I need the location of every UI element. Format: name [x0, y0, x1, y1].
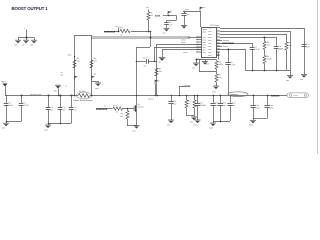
svg-text:xxxx: xxxx — [185, 9, 189, 11]
wire — [245, 49, 247, 70]
svg-text:xxx: xxx — [267, 45, 270, 47]
svg-text:10uF: 10uF — [8, 105, 13, 107]
wire comp horizontal — [137, 61, 146, 63]
branch C out3 — [220, 96, 222, 104]
svg-text:xxxxxx: xxxxxx — [138, 107, 144, 109]
svg-text:xxxx: xxxx — [194, 124, 198, 126]
svg-text:xxxxx: xxxxx — [181, 42, 186, 44]
wire — [154, 47, 156, 62]
U1 right pin stubs — [208, 26, 220, 57]
wire — [156, 45, 158, 62]
wire — [26, 38, 28, 41]
wire pin9 — [216, 52, 218, 54]
wire — [264, 50, 266, 56]
capacitor C m3 — [71, 96, 73, 108]
wire — [127, 119, 129, 126]
wire — [60, 110, 62, 124]
capacitor C m1 — [48, 96, 50, 108]
IC U1 boost converter body — [202, 28, 217, 58]
svg-text:68pF: 68pF — [278, 49, 283, 51]
svg-text:xxx: xxx — [94, 61, 97, 63]
wire pin2 to plain ground column — [220, 31, 290, 33]
junction — [48, 95, 50, 97]
resistor R right — [285, 42, 288, 50]
capacitor C2u2 — [226, 63, 231, 64]
svg-text:xxx: xxx — [159, 71, 162, 73]
junction — [48, 123, 50, 125]
svg-text:Cx xx: Cx xx — [143, 57, 148, 59]
junction — [197, 95, 199, 97]
junction — [150, 31, 152, 33]
svg-text:xxx: xxx — [150, 15, 153, 17]
junction — [155, 95, 157, 97]
wire — [184, 11, 186, 14]
net label oval on rail — [228, 92, 248, 97]
junction — [220, 121, 222, 123]
wire — [213, 105, 215, 121]
svg-text:xxxxx: xxxxx — [293, 95, 298, 97]
wire pin8 — [216, 49, 245, 51]
resistor R fb1 — [185, 100, 188, 108]
svg-text:xxxx: xxxx — [209, 127, 213, 129]
wire — [18, 37, 34, 39]
wire 68p branch — [276, 37, 278, 70]
wire — [228, 49, 230, 96]
capacitor C out2 — [210, 103, 215, 105]
wire — [48, 110, 50, 124]
ground — [249, 120, 256, 126]
ground — [194, 120, 201, 126]
svg-text:xxx: xxx — [173, 104, 176, 106]
svg-text:100k: 100k — [219, 64, 223, 66]
svg-text:xx: xx — [22, 45, 24, 47]
junction — [213, 95, 215, 97]
svg-text:xxxx: xxxx — [208, 37, 212, 39]
wire — [162, 50, 164, 58]
capacitor C m2 — [60, 96, 62, 108]
wire — [71, 110, 73, 124]
ground — [202, 62, 208, 65]
ground — [286, 76, 293, 82]
wire SW thick gray bus — [92, 36, 191, 39]
wire — [34, 38, 36, 41]
svg-text:xx: xx — [104, 106, 106, 108]
svg-text:xxxx: xxxx — [208, 40, 212, 42]
ground — [300, 75, 307, 81]
wire — [216, 82, 218, 86]
power flag VCC1 — [168, 11, 171, 15]
svg-text:xxx: xxx — [77, 61, 80, 63]
wire — [6, 122, 8, 124]
junction — [184, 11, 186, 13]
wire thin over bus end — [188, 37, 201, 39]
power flag on branch A — [75, 76, 78, 80]
svg-text:xxx: xxx — [157, 81, 160, 83]
net stub above rail — [179, 86, 181, 96]
svg-text:xxx: xxx — [30, 45, 33, 47]
ground — [30, 40, 37, 46]
capacitor C out1 — [195, 103, 200, 105]
wire — [286, 34, 288, 42]
capacitor C out5 — [250, 105, 255, 107]
wire — [98, 81, 100, 83]
capacitor C bypass2 — [181, 13, 186, 15]
capacitor C11 — [302, 44, 307, 46]
junction — [26, 37, 28, 39]
svg-text:xxxxx: xxxxx — [183, 52, 188, 54]
capacitor C in2 — [21, 96, 23, 104]
junction — [196, 59, 198, 61]
svg-text:xxx: xxx — [215, 105, 218, 107]
svg-text:xx: xx — [65, 86, 67, 88]
ground — [2, 123, 9, 129]
capacitor C bypass1 — [164, 22, 169, 24]
svg-text:xxxx: xxxx — [44, 129, 48, 131]
svg-text:xxxxxx: xxxxxx — [271, 95, 280, 98]
connector pill — [287, 93, 309, 98]
capacitor C comp series — [146, 59, 148, 64]
svg-text:xxx: xxx — [167, 124, 170, 126]
resistor R lower — [215, 74, 218, 82]
wire pin4 — [220, 37, 276, 39]
resistor R divB — [90, 60, 93, 68]
resistor R divA — [73, 60, 76, 68]
wire — [127, 109, 129, 111]
junction — [91, 95, 93, 97]
wire — [137, 47, 151, 49]
wire — [216, 69, 218, 74]
wire — [205, 60, 207, 62]
junction band — [150, 37, 152, 39]
current sense resistor oval — [76, 92, 91, 99]
svg-text:xxx: xxx — [223, 105, 226, 107]
junction — [60, 95, 62, 97]
wire pin6 — [216, 43, 252, 45]
junction — [220, 95, 222, 97]
svg-text:xxx: xxx — [207, 64, 210, 66]
wire — [127, 125, 137, 127]
svg-text:xxx: xxx — [219, 77, 222, 79]
wire pin1 to C right column — [220, 28, 304, 30]
wire — [176, 15, 178, 20]
branch C out-a — [171, 96, 173, 102]
svg-text:Rx x: Rx x — [113, 105, 117, 107]
resistor R comp — [155, 68, 158, 76]
ground — [192, 63, 199, 69]
wire — [213, 121, 230, 123]
svg-text:xxx: xxx — [163, 33, 166, 35]
svg-text:xxxx: xxxx — [203, 32, 207, 34]
wire — [286, 50, 288, 70]
ground — [14, 40, 21, 46]
wire gate — [96, 108, 132, 110]
svg-text:Rx x: Rx x — [120, 27, 124, 29]
svg-text:xxxxxxxxx: xxxxxxxxx — [222, 42, 235, 45]
svg-text:xxx xxxx xxxx: xxx xxxx xxxx — [30, 94, 42, 96]
svg-text:xxxxxxxx: xxxxxxxx — [104, 30, 116, 33]
svg-text:xx: xx — [204, 7, 206, 9]
wire — [220, 105, 222, 121]
svg-text:xx: xx — [170, 11, 172, 13]
svg-text:xxxx: xxxx — [212, 92, 216, 94]
wire — [196, 60, 198, 64]
svg-text:xxx: xxx — [158, 62, 161, 64]
wire — [253, 118, 267, 120]
net stub node A — [26, 30, 28, 38]
wire — [5, 87, 7, 96]
wire pin10 stub — [216, 55, 219, 57]
svg-text:U1 LTxxxx: U1 LTxxxx — [210, 25, 219, 27]
svg-text:xxxxxxxx: xxxxxxxx — [96, 108, 108, 111]
wire — [148, 20, 150, 31]
wire into IC top — [200, 11, 202, 27]
svg-text:xxxx: xxxx — [208, 46, 212, 48]
wire SW long vertical — [136, 47, 138, 126]
svg-text:xxxx: xxxx — [95, 88, 99, 90]
svg-text:xxx: xxx — [192, 67, 195, 69]
svg-text:xxxxxxxx: xxxxxxxx — [231, 94, 239, 96]
svg-text:xxxx: xxxx — [208, 27, 212, 29]
wire — [48, 124, 50, 126]
svg-text:4.7uF: 4.7uF — [254, 49, 260, 51]
wire pin3 — [220, 34, 287, 36]
capacitor C in1 — [6, 96, 8, 104]
ground — [134, 126, 140, 129]
svg-text:xxx: xxx — [61, 75, 64, 77]
resistor Rb — [263, 56, 266, 64]
wire — [18, 38, 20, 41]
svg-text:xxxx: xxxx — [249, 125, 253, 127]
junction — [194, 95, 196, 97]
junction — [136, 95, 138, 97]
U1 left pin stubs — [196, 35, 206, 54]
junction — [252, 70, 254, 72]
resistor R fb2 — [193, 100, 196, 108]
junction — [264, 70, 266, 72]
wire — [184, 16, 186, 26]
svg-text:4.7uF: 4.7uF — [23, 105, 29, 107]
resistor R pulldown — [126, 111, 129, 119]
svg-text:BOOST OUTPUT 1: BOOST OUTPUT 1 — [12, 6, 49, 11]
branch C out6 — [267, 96, 269, 106]
ground — [159, 57, 166, 61]
wire pin5 stub with label — [216, 40, 222, 42]
power flag VCC2 — [200, 7, 203, 11]
svg-text:xxxx: xxxx — [203, 52, 207, 54]
wire — [252, 43, 254, 70]
wire — [264, 64, 266, 71]
svg-text:xxx: xxx — [286, 80, 289, 82]
wire under IC — [196, 59, 216, 61]
sheet background — [0, 0, 320, 154]
pad PAD1 — [3, 84, 8, 87]
svg-text:xxxx: xxxx — [208, 34, 212, 36]
wire VIN horizontal — [163, 15, 176, 17]
capacitor C out4 — [227, 103, 232, 105]
wire — [156, 62, 158, 96]
wire — [150, 31, 152, 47]
resistor R snub horizontal — [120, 29, 132, 34]
svg-text:xxxx: xxxx — [208, 55, 212, 57]
junction — [228, 49, 230, 51]
svg-text:1.00k: 1.00k — [267, 59, 272, 61]
capacitor C out3 — [218, 103, 223, 105]
svg-text:xxx: xxx — [232, 105, 235, 107]
net stub SW — [118, 28, 120, 32]
svg-text:a: a — [24, 28, 25, 30]
resistor R upper — [216, 60, 218, 62]
wire — [267, 108, 269, 119]
wire — [213, 121, 215, 123]
svg-text:PAD 1: PAD 1 — [1, 80, 6, 83]
junction — [74, 95, 76, 97]
svg-text:xxx: xxx — [62, 110, 65, 112]
svg-text:xxxxx: xxxxx — [223, 46, 228, 48]
branch R fb pair — [186, 96, 188, 101]
wire — [194, 115, 196, 117]
wire — [230, 105, 232, 121]
svg-text:xxxxxx: xxxxxx — [148, 99, 153, 101]
ground — [209, 123, 216, 129]
ground — [167, 120, 174, 126]
svg-text:xx: xx — [188, 103, 190, 105]
wire pin 44.5 to left — [157, 44, 202, 46]
svg-text:xxxx: xxxx — [68, 55, 72, 57]
wire right bypass — [183, 11, 200, 13]
junction — [136, 61, 138, 63]
wire — [245, 70, 252, 72]
svg-text:xxx: xxx — [300, 79, 303, 81]
wire — [186, 115, 194, 117]
svg-text:Rx 0.01: Rx 0.01 — [79, 91, 86, 93]
junction — [71, 95, 73, 97]
wire pin 49.5 to left — [162, 49, 201, 51]
svg-text:xx: xx — [187, 14, 189, 16]
wire — [6, 121, 21, 123]
wire — [253, 119, 255, 121]
svg-text:xxx: xxx — [14, 45, 17, 47]
wire — [197, 105, 199, 120]
svg-text:xxx: xxx — [2, 128, 5, 130]
capacitor C4u7 — [250, 47, 255, 49]
junction — [230, 95, 232, 97]
junction — [157, 95, 159, 97]
resistor Ra — [263, 42, 266, 50]
junction — [171, 95, 173, 97]
wire pin 47 to left — [154, 47, 201, 49]
wire — [48, 123, 71, 125]
svg-text:xxx: xxx — [146, 7, 149, 9]
svg-text:xxxx: xxxx — [208, 52, 212, 54]
branch C out2 — [213, 96, 215, 104]
junction — [179, 95, 181, 97]
junction — [267, 95, 269, 97]
ground — [22, 40, 29, 46]
wire — [166, 24, 168, 28]
junction — [253, 95, 255, 97]
svg-text:xxxxx: xxxxx — [184, 85, 192, 88]
sheet border right edge — [317, 0, 319, 154]
branch C out4 — [230, 96, 232, 104]
ground — [181, 25, 187, 28]
resistor R gate horizontal — [113, 106, 123, 111]
junction — [148, 31, 150, 33]
wire — [253, 108, 255, 119]
wire — [304, 28, 306, 75]
svg-text:xxxx: xxxx — [208, 49, 212, 51]
divider branch A — [74, 35, 76, 96]
wire — [21, 105, 23, 121]
ground flag above rail left — [58, 89, 60, 96]
svg-text:xxx: xxx — [50, 110, 53, 112]
capacitor C68p — [274, 47, 279, 49]
divider branch B — [91, 35, 93, 96]
branch R fb2 — [194, 96, 196, 101]
wire net label SW horizontal — [104, 31, 150, 33]
ground — [95, 83, 101, 86]
svg-text:xxx: xxx — [120, 116, 123, 118]
ground — [190, 117, 197, 123]
wire pin7 stub with label — [216, 46, 222, 48]
svg-text:x x x x: x x x x — [198, 58, 203, 60]
svg-text:xxx: xxx — [289, 45, 292, 47]
wire — [171, 104, 173, 120]
wire two-resistor branch — [264, 37, 266, 42]
svg-text:xxx: xxx — [94, 74, 97, 76]
ground — [163, 28, 170, 34]
junction — [21, 95, 23, 97]
wire — [6, 105, 8, 121]
svg-text:xxxx: xxxx — [132, 131, 136, 133]
wire — [92, 81, 99, 83]
power flag on branch B — [92, 76, 95, 80]
branch C out1 — [197, 96, 199, 104]
svg-text:2.2uF: 2.2uF — [230, 65, 236, 67]
junction — [58, 95, 60, 97]
svg-text:xxxx: xxxx — [208, 43, 212, 45]
junction — [264, 37, 266, 39]
svg-text:Current Sense Resistor: Current Sense Resistor — [73, 99, 93, 102]
wire bottom bus right — [252, 70, 290, 72]
power flag mid rail — [155, 84, 157, 96]
svg-text:xxxx: xxxx — [155, 15, 161, 18]
wire — [75, 35, 92, 37]
svg-text:100uF: 100uF — [200, 105, 206, 107]
junction — [127, 108, 129, 110]
junction — [186, 95, 188, 97]
transistor Q1 — [132, 105, 137, 111]
svg-text:xxx: xxx — [73, 110, 76, 112]
branch C out5 — [253, 96, 255, 106]
wire — [186, 108, 188, 115]
svg-text:xxxx: xxxx — [208, 31, 212, 33]
junction — [276, 70, 278, 72]
junction — [6, 121, 8, 123]
ground — [44, 125, 51, 131]
svg-text:xxx: xxx — [144, 65, 147, 67]
capacitor C out-a — [168, 101, 173, 103]
wire — [194, 108, 196, 115]
resistor R sense — [79, 94, 90, 98]
junction — [168, 15, 170, 17]
wire — [290, 31, 292, 76]
svg-text:xxx: xxx — [120, 35, 123, 37]
junction — [154, 61, 156, 63]
ground — [213, 86, 219, 89]
wire divider tap — [199, 60, 201, 72]
svg-text:xxxx: xxxx — [54, 91, 58, 93]
svg-text:xxx: xxx — [190, 121, 193, 123]
